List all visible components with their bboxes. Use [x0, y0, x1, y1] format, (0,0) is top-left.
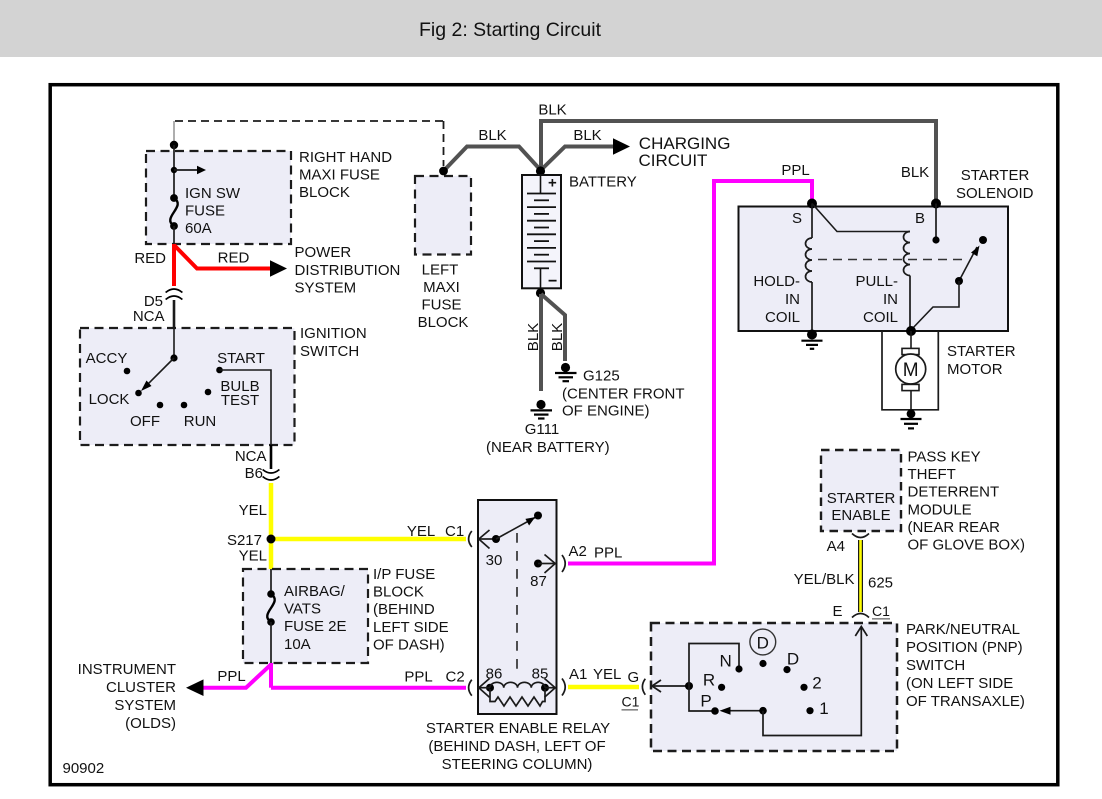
- right hand maxi fuse block (dashed box): [146, 151, 291, 244]
- connector bracket C2 (relay): [469, 680, 472, 696]
- connector B6: [263, 470, 280, 474]
- svg-text:PPL: PPL: [594, 545, 622, 562]
- wire PPL from A2 to solenoid S: [568, 181, 812, 564]
- svg-text:90902: 90902: [63, 760, 105, 777]
- svg-text:BLK: BLK: [549, 323, 566, 351]
- fuse AIRBAG/VATS FUSE 2E 10A: [270, 569, 272, 594]
- node S217: [267, 535, 276, 544]
- node: solenoid ground (hold-in coil): [807, 330, 817, 340]
- svg-text:STEERING COLUMN): STEERING COLUMN): [442, 756, 593, 773]
- svg-text:BLK: BLK: [478, 127, 506, 144]
- label POWER DISTRIBUTION SYSTEM: [295, 244, 401, 296]
- svg-text:C1: C1: [622, 693, 640, 709]
- wire YEL from A1 to PNP switch G: [568, 685, 639, 690]
- svg-text:STARTER: STARTER: [827, 490, 896, 507]
- label INSTRUMENT CLUSTER SYSTEM (OLDS): [78, 661, 176, 732]
- pin 87 lead with right arrow: [534, 560, 542, 568]
- connector bracket E/C1: [852, 614, 869, 618]
- svg-text:IN: IN: [785, 291, 800, 308]
- svg-text:N: N: [720, 652, 732, 671]
- svg-text:YEL: YEL: [407, 523, 435, 540]
- svg-text:BLK: BLK: [573, 127, 601, 144]
- svg-text:M: M: [903, 360, 919, 381]
- label I/P FUSE BLOCK (BEHIND LEFT SIDE OF DASH): [373, 566, 449, 653]
- svg-text:RUN: RUN: [184, 413, 217, 430]
- label PULL-IN COIL: [855, 273, 898, 326]
- wire: L-shaped net to N and P: [689, 644, 739, 712]
- contact D (circled, drive): [759, 660, 766, 667]
- contact BULB TEST: [205, 389, 212, 396]
- wire: vertical into fuse: [173, 145, 175, 198]
- svg-text:85: 85: [532, 666, 549, 683]
- svg-text:C2: C2: [446, 669, 465, 686]
- svg-text:STARTER: STARTER: [947, 343, 1016, 360]
- node B terminal: [931, 199, 941, 209]
- node S terminal: [807, 199, 817, 209]
- node: left maxi fuse terminal: [439, 167, 448, 176]
- svg-text:SWITCH: SWITCH: [300, 343, 359, 360]
- pin 85 lead with right arrow: [541, 684, 549, 692]
- label LEFT MAXI FUSE BLOCK: [418, 262, 469, 332]
- svg-text:OF GLOVE BOX): OF GLOVE BOX): [908, 537, 1026, 554]
- wire: black from D5 to ignition switch pivot: [173, 300, 176, 329]
- svg-text:E: E: [832, 603, 842, 620]
- svg-text:I/P FUSE: I/P FUSE: [373, 566, 435, 583]
- svg-text:(NEAR BATTERY): (NEAR BATTERY): [486, 439, 610, 456]
- connector bracket A1: [562, 679, 565, 696]
- svg-text:FUSE: FUSE: [421, 297, 461, 314]
- svg-text:BLK: BLK: [525, 323, 542, 351]
- svg-text:HOLD-: HOLD-: [753, 273, 800, 290]
- relay switch arm: [496, 518, 535, 540]
- wire YEL/BLK 625: [858, 540, 863, 612]
- fuse IGN SW FUSE 60A: [170, 194, 178, 202]
- connector bracket A2: [562, 555, 565, 572]
- svg-text:IGN SW: IGN SW: [185, 185, 241, 202]
- svg-text:SYSTEM: SYSTEM: [114, 697, 176, 714]
- ground G125: [561, 363, 570, 372]
- battery: [536, 166, 545, 175]
- svg-text:DISTRIBUTION: DISTRIBUTION: [295, 262, 401, 279]
- left maxi fuse block (dashed box): [415, 176, 471, 255]
- svg-text:RED: RED: [134, 250, 166, 267]
- svg-text:THEFT: THEFT: [908, 466, 956, 483]
- svg-text:PARK/NEUTRAL: PARK/NEUTRAL: [906, 621, 1020, 638]
- svg-text:P: P: [700, 691, 711, 710]
- node: battery negative terminal: [536, 288, 545, 297]
- svg-text:10A: 10A: [284, 636, 311, 653]
- svg-text:SWITCH: SWITCH: [906, 657, 965, 674]
- wire: gray stub above IGN SW fuse: [173, 121, 175, 145]
- contact 2: [800, 684, 807, 691]
- svg-text:Fig 2: Starting Circuit: Fig 2: Starting Circuit: [419, 19, 602, 41]
- svg-text:87: 87: [530, 573, 547, 590]
- wire: dashed net horizontal (maxi fuse blocks link): [175, 120, 444, 122]
- I/P fuse block (dashed box): [243, 569, 368, 663]
- svg-text:TEST: TEST: [221, 392, 259, 409]
- wire PPL down from fuse block: [269, 663, 273, 688]
- contact OFF: [157, 402, 164, 409]
- wire: dashed net vertical drop to left maxi fuse block: [443, 121, 445, 166]
- svg-text:A1: A1: [569, 666, 587, 683]
- svg-text:NCA: NCA: [235, 448, 267, 465]
- svg-text:C1: C1: [445, 523, 464, 540]
- node: G junction: [685, 682, 693, 690]
- wire RED vertical below fuse block: [172, 244, 176, 286]
- svg-text:BATTERY: BATTERY: [569, 174, 637, 191]
- ground (starter motor): [901, 418, 922, 420]
- contact 1: [806, 707, 813, 714]
- wire YEL from B6 to S217: [269, 483, 274, 539]
- arrow to CHARGING CIRCUIT: [613, 138, 630, 154]
- svg-text:BLOCK: BLOCK: [373, 584, 424, 601]
- arrow to POWER DISTRIBUTION SYSTEM: [270, 260, 287, 276]
- wire PPL to relay C2: [271, 686, 466, 690]
- svg-text:B: B: [915, 210, 925, 227]
- svg-text:G111: G111: [525, 421, 559, 438]
- svg-text:COIL: COIL: [863, 309, 898, 326]
- svg-text:MAXI: MAXI: [423, 279, 460, 296]
- svg-text:YEL: YEL: [593, 666, 621, 683]
- svg-text:ENABLE: ENABLE: [831, 507, 890, 524]
- wire: B lead inside solenoid: [935, 204, 937, 241]
- connector bracket G (PNP): [642, 679, 645, 695]
- svg-text:FUSE 2E: FUSE 2E: [284, 618, 347, 635]
- starter solenoid box: [739, 207, 1009, 332]
- svg-text:SYSTEM: SYSTEM: [295, 280, 357, 297]
- svg-text:(ON LEFT SIDE: (ON LEFT SIDE: [906, 675, 1013, 692]
- svg-text:STARTER: STARTER: [961, 167, 1030, 184]
- dashed linkage (solenoid): [818, 259, 962, 261]
- node: tap dot with right arrow: [171, 167, 177, 173]
- contact D: [783, 666, 790, 673]
- svg-text:DETERRENT: DETERRENT: [908, 484, 1000, 501]
- svg-text:IN: IN: [883, 291, 898, 308]
- svg-text:MOTOR: MOTOR: [947, 361, 1003, 378]
- pin 86 lead with left arrow: [486, 684, 494, 692]
- label IGN SW FUSE 60A: [185, 185, 241, 237]
- pull-in coil: [904, 232, 911, 276]
- svg-text:60A: 60A: [185, 220, 212, 237]
- wire YEL from S217 down to I/P fuse block: [269, 539, 274, 570]
- label HOLD-IN COIL: [753, 273, 800, 326]
- wire RED branch to power distribution: [174, 245, 271, 269]
- pass key module (dashed box): [821, 450, 901, 531]
- relay coil between 86 and 85: [490, 682, 545, 687]
- svg-text:2: 2: [812, 674, 821, 693]
- svg-text:(CENTER FRONT: (CENTER FRONT: [562, 386, 685, 403]
- svg-text:OF ENGINE): OF ENGINE): [562, 403, 650, 420]
- svg-text:86: 86: [486, 666, 503, 683]
- svg-text:OF TRANSAXLE): OF TRANSAXLE): [906, 693, 1025, 710]
- svg-text:OF DASH): OF DASH): [373, 636, 445, 653]
- svg-text:BLK: BLK: [901, 164, 929, 181]
- svg-text:POWER: POWER: [295, 244, 352, 261]
- svg-text:YEL: YEL: [239, 548, 267, 565]
- svg-text:LEFT: LEFT: [422, 262, 459, 279]
- wire: START to B6: [220, 370, 272, 445]
- svg-text:NCA: NCA: [133, 308, 165, 325]
- svg-text:R: R: [703, 671, 715, 690]
- solenoid contact switch: [979, 236, 987, 244]
- contact P: [711, 707, 719, 715]
- wire BLK battery to G111: [539, 294, 543, 391]
- svg-text:A2: A2: [569, 543, 587, 560]
- ground (solenoid): [801, 340, 822, 342]
- contact RUN: [181, 402, 188, 409]
- hold-in coil: [811, 204, 813, 239]
- wire: G lead with left arrow: [652, 685, 689, 687]
- svg-text:MODULE: MODULE: [908, 501, 972, 518]
- motor M: [910, 331, 912, 349]
- relay U1: starter enable relay box: [478, 500, 557, 714]
- PNP switch (dashed box): [651, 623, 897, 751]
- svg-text:A4: A4: [827, 538, 845, 555]
- svg-text:PPL: PPL: [217, 668, 245, 685]
- ignition switch (dashed box): [80, 328, 295, 445]
- svg-text:(OLDS): (OLDS): [125, 715, 176, 732]
- svg-text:BLOCK: BLOCK: [299, 184, 350, 201]
- svg-text:AIRBAG/: AIRBAG/: [284, 583, 346, 600]
- svg-text:CLUSTER: CLUSTER: [106, 679, 176, 696]
- wire BLK from left maxi fuse to battery: [444, 147, 541, 172]
- svg-text:1: 1: [819, 699, 828, 718]
- svg-text:S217: S217: [227, 532, 262, 549]
- node: starter motor junction: [906, 326, 916, 336]
- relay resistor (parallel): [490, 689, 545, 706]
- contact N: [735, 665, 742, 672]
- svg-text:625: 625: [868, 575, 893, 592]
- wire BLK to charging circuit: [541, 147, 614, 171]
- svg-text:G125: G125: [583, 368, 620, 385]
- svg-text:FUSE: FUSE: [185, 203, 225, 220]
- svg-text:C1: C1: [872, 603, 890, 619]
- wire BLK main (battery to solenoid B): [541, 121, 936, 200]
- svg-text:(NEAR REAR: (NEAR REAR: [908, 519, 1001, 536]
- svg-text:START: START: [217, 350, 265, 367]
- wire PPL branch to instrument cluster: [202, 665, 271, 688]
- svg-text:ACCY: ACCY: [86, 350, 128, 367]
- wire: S to pull-in coil: [812, 204, 910, 232]
- label PARK/NEUTRAL POSITION (PNP) SWITCH (ON LEFT SIDE OF TRANSAXLE): [906, 621, 1025, 710]
- TITLEBAR: [0, 0, 1102, 57]
- connector bracket A4: [852, 534, 869, 538]
- connector bracket C1 (relay): [469, 531, 472, 547]
- svg-text:PULL-: PULL-: [855, 273, 898, 290]
- svg-text:POSITION (PNP): POSITION (PNP): [906, 639, 1023, 656]
- label PASS KEY THEFT DETERRENT MODULE (NEAR REAR OF GLOVE BOX): [908, 448, 1026, 553]
- svg-text:PPL: PPL: [781, 162, 809, 179]
- svg-text:BLK: BLK: [538, 102, 566, 119]
- svg-text:D: D: [787, 650, 799, 669]
- svg-text:OFF: OFF: [130, 413, 160, 430]
- dashed linkage (relay): [516, 533, 518, 676]
- svg-text:MAXI FUSE: MAXI FUSE: [299, 167, 380, 184]
- svg-text:RED: RED: [218, 250, 250, 267]
- svg-text:STARTER ENABLE RELAY: STARTER ENABLE RELAY: [426, 720, 610, 737]
- svg-text:RIGHT HAND: RIGHT HAND: [299, 149, 392, 166]
- contact START: [216, 367, 223, 374]
- svg-text:COIL: COIL: [765, 309, 800, 326]
- wire YEL from S217 to relay C1: [271, 537, 466, 542]
- switch wiper pivot: [170, 354, 177, 361]
- svg-text:(BEHIND DASH, LEFT OF: (BEHIND DASH, LEFT OF: [428, 738, 605, 755]
- node: motor ground: [907, 409, 916, 418]
- label RIGHT HAND MAXI FUSE BLOCK: [299, 149, 392, 201]
- svg-text:D: D: [757, 634, 769, 653]
- svg-text:+: +: [548, 175, 557, 192]
- svg-text:YEL/BLK: YEL/BLK: [794, 571, 855, 588]
- svg-text:LOCK: LOCK: [89, 391, 130, 408]
- node: junction dot above fuse: [170, 141, 178, 149]
- svg-text:LEFT SIDE: LEFT SIDE: [373, 619, 449, 636]
- svg-text:B6: B6: [245, 465, 263, 482]
- wire BLK battery to G125: [541, 294, 565, 361]
- contact LOCK: [135, 390, 142, 397]
- svg-text:INSTRUMENT: INSTRUMENT: [78, 661, 176, 678]
- svg-text:30: 30: [486, 552, 503, 569]
- svg-text:YEL: YEL: [239, 502, 267, 519]
- svg-text:(BEHIND: (BEHIND: [373, 601, 435, 618]
- svg-text:SOLENOID: SOLENOID: [956, 185, 1034, 202]
- contact R: [718, 684, 725, 691]
- starter motor box: [882, 331, 938, 410]
- arrow to INSTRUMENT CLUSTER SYSTEM: [186, 679, 204, 696]
- label STARTER ENABLE RELAY caption: [426, 720, 610, 773]
- svg-text:G: G: [628, 669, 640, 686]
- svg-text:IGNITION: IGNITION: [300, 325, 367, 342]
- svg-text:S: S: [792, 210, 802, 227]
- label AIRBAG/ VATS FUSE 2E 10A: [284, 583, 347, 653]
- svg-text:VATS: VATS: [284, 601, 321, 618]
- svg-text:PPL: PPL: [404, 669, 432, 686]
- svg-text:−: −: [548, 273, 557, 290]
- wire: wiper to E with up arrow: [763, 627, 861, 736]
- svg-text:BLOCK: BLOCK: [418, 314, 469, 331]
- contact ACCY: [124, 368, 131, 375]
- svg-text:PASS KEY: PASS KEY: [908, 448, 981, 465]
- svg-text:CIRCUIT: CIRCUIT: [639, 151, 708, 170]
- ground G111: [536, 400, 545, 409]
- connector D5 (inline connector chevrons): [166, 289, 183, 293]
- PNP wiper arm with arrow: [730, 710, 763, 712]
- pin 30 lead with left arrow: [480, 538, 496, 540]
